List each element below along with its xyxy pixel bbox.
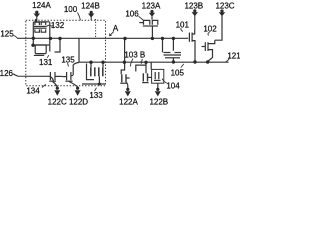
wire: main horizontal node-A wire [17,37,188,39]
svg-text:122D: 122D [69,98,88,107]
svg-text:134: 134 [26,86,40,95]
input arrow 123A [149,10,155,20]
wire: 125 leader curve [13,35,17,38]
transistor 105 [163,38,182,62]
svg-text:100: 100 [64,5,78,14]
leader 135 pointer [68,63,69,67]
svg-text:123C: 123C [215,1,234,10]
transistor 102 [202,16,223,62]
wire: cross-couple elbow from node at x60 [55,39,61,53]
leader 132 tilde [47,25,54,26]
transistor 132 [34,20,47,32]
transistor 133 pair (TA/TB) [82,62,105,84]
leader 134 pointer [42,84,46,87]
svg-text:131: 131 [39,58,53,67]
transistor 106 [139,17,158,38]
wire: lower 121 wire [79,38,229,62]
leader 133 pointer [95,88,97,91]
svg-text:124B: 124B [81,2,100,11]
svg-text:105: 105 [171,69,185,78]
output arrow 122B [155,88,161,97]
transistor 104 [151,62,164,88]
svg-text:122B: 122B [149,97,168,106]
output arrow 122C [54,87,60,96]
node dot 124A junction on box edge [35,19,38,22]
svg-text:122A: 122A [119,97,138,106]
input arrow 124B [88,11,94,21]
leader 121 [226,59,230,62]
svg-text:B: B [140,51,145,60]
leader A arrow [110,32,114,36]
leader 106 [139,16,144,20]
node dot on 133 gate wire [98,83,101,86]
svg-text:126: 126 [0,69,14,78]
svg-text:101: 101 [176,20,190,29]
wire: dotted stem 124B [95,19,97,38]
transistor 103 (TC) [120,39,129,89]
leader 101 [181,28,183,32]
svg-text:A: A [113,24,119,33]
svg-text:124A: 124A [32,1,51,10]
leader 103 [130,59,133,67]
svg-text:123A: 123A [142,1,161,10]
output arrow 122D [75,87,81,96]
node dots on lower 121 wire [89,60,209,64]
svg-text:103: 103 [124,51,138,60]
svg-text:121: 121 [227,51,240,60]
input arrow 124A [34,11,41,21]
svg-text:123B: 123B [184,1,203,10]
node dots on main wire [31,37,175,47]
svg-text:133: 133 [89,91,103,100]
input arrow 123C [219,9,225,16]
svg-text:132: 132 [51,21,65,30]
leader 100 [78,13,81,21]
leader 131 pointer [47,55,49,58]
svg-text:104: 104 [166,82,180,91]
svg-text:106: 106 [125,9,139,18]
wire: 126 input wire [13,74,54,81]
leader 102 [208,32,210,35]
dashed box 100 [26,20,106,86]
transistor 135 (pass gate right) [63,63,79,87]
output arrow 122A [125,88,131,97]
leader 104 tilde [162,79,167,84]
svg-text:135: 135 [61,55,75,64]
transistor TD [136,62,152,82]
transistor 131 [33,22,50,56]
transistor 134 (pass gate left) [49,72,62,87]
svg-text:102: 102 [203,25,217,34]
input arrow 123B [192,9,198,30]
leader 105 pointer [181,64,184,68]
svg-text:122C: 122C [48,98,67,107]
transistor 101 [189,30,195,62]
leader B arrow [141,59,142,63]
svg-text:125: 125 [0,30,14,39]
